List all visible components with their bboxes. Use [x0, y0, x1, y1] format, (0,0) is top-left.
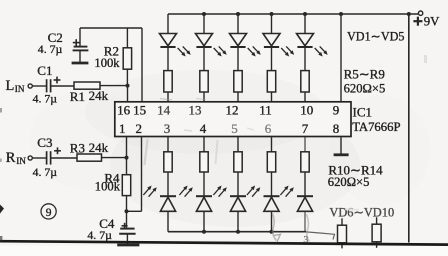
- pin number 16: [117, 103, 131, 118]
- wire rail to VD4: [271, 14, 273, 34]
- ground below C4: [117, 244, 139, 247]
- resistor R5: [164, 71, 172, 92]
- wire IC pin8 to ground: [340, 137, 342, 154]
- value 620Ω×5 bottom: [328, 175, 370, 189]
- wire R2 to node A: [126, 69, 128, 85]
- label R2 100k: [94, 44, 120, 70]
- LED VD1: [160, 34, 177, 48]
- svg-text:3: 3: [304, 236, 309, 246]
- resistor R6: [200, 71, 208, 92]
- value 4.7µ C1: [33, 92, 58, 106]
- wire IC pin to R10: [167, 137, 169, 152]
- wire VD8 to bottom rail: [237, 211, 239, 231]
- wire R5 to IC pin: [167, 92, 169, 102]
- resistor R13: [267, 152, 275, 172]
- node junction rail col 3: [236, 12, 240, 16]
- svg-text:11: 11: [259, 103, 272, 118]
- pin number 9: [333, 103, 340, 118]
- label TA7666P: [352, 120, 400, 134]
- svg-text:R5∼R9: R5∼R9: [344, 67, 385, 82]
- node junction bottom rail 4: [270, 230, 274, 234]
- LED VD10: [297, 196, 313, 211]
- value 620Ω×5 top: [344, 82, 386, 96]
- light arrows VD2: [214, 46, 227, 56]
- light arrows VD7: [179, 186, 192, 197]
- wire node A to IC pin16: [127, 86, 129, 102]
- wire top +9V rail: [168, 13, 418, 15]
- node junction bottom rail 2: [202, 230, 206, 234]
- svg-text:100k: 100k: [94, 56, 120, 70]
- light arrows VD6: [143, 186, 156, 197]
- wire node C to pin2 riser: [127, 210, 142, 212]
- light arrows VD3: [248, 46, 261, 56]
- pin number 13: [189, 103, 202, 118]
- terminal +9V: [418, 11, 422, 15]
- svg-text:2: 2: [136, 121, 143, 136]
- svg-text:16: 16: [117, 103, 131, 118]
- svg-text:10: 10: [300, 103, 313, 118]
- wire bottom rail faded extension: [306, 232, 335, 240]
- svg-text:24k: 24k: [89, 140, 109, 155]
- label R3 24k: [70, 140, 109, 156]
- light arrows VD1: [178, 46, 191, 56]
- label C1: [37, 63, 52, 78]
- terminal R_IN: [28, 156, 32, 160]
- label IC1: [353, 105, 373, 120]
- svg-text:4. 7µ: 4. 7µ: [87, 228, 112, 242]
- wire R3 to node B: [102, 157, 127, 159]
- LED VD4: [263, 34, 280, 48]
- node junction rail col 5: [303, 12, 307, 16]
- wire rail to VD2: [203, 14, 205, 34]
- resistor R11: [200, 152, 208, 172]
- wire VD4 to R8: [271, 47, 273, 71]
- svg-text:8: 8: [333, 121, 340, 136]
- wire R1 to node A: [100, 85, 128, 87]
- label C4: [99, 216, 115, 231]
- svg-text:4: 4: [200, 121, 207, 136]
- resistor R1: [74, 82, 100, 89]
- label C3: [37, 135, 52, 150]
- svg-text:12: 12: [226, 103, 239, 118]
- wire IC pin to R11: [203, 137, 205, 152]
- polarity + C2: [73, 39, 80, 46]
- svg-text:15: 15: [133, 103, 146, 118]
- node junction rail col 2: [202, 12, 206, 16]
- svg-text:5: 5: [231, 121, 238, 136]
- pin number 15: [133, 103, 146, 118]
- svg-text:4. 7µ: 4. 7µ: [33, 165, 58, 179]
- node junction pin9 rail: [339, 12, 343, 16]
- value 4.7µ C2: [38, 42, 63, 56]
- label VD1~VD5: [347, 30, 405, 44]
- wire to IC pin15: [141, 28, 143, 102]
- resistor R9: [301, 71, 309, 92]
- node junction top rail / right rail: [407, 12, 411, 16]
- wire pin9 to +9V rail: [340, 14, 342, 102]
- value 4.7µ C4: [87, 228, 112, 242]
- wire IC pin1 to node B: [126, 137, 128, 158]
- svg-text:9V: 9V: [424, 14, 440, 28]
- capacitor C1: [47, 79, 51, 92]
- svg-text:4. 7µ: 4. 7µ: [33, 92, 58, 106]
- resistor R8: [267, 71, 275, 92]
- svg-text:R3: R3: [70, 140, 85, 155]
- wire C4 to ground: [126, 234, 128, 244]
- svg-text:IN: IN: [16, 156, 26, 166]
- label VD6~VD10: [329, 205, 394, 219]
- svg-text:620Ω×5: 620Ω×5: [344, 82, 386, 96]
- svg-text:9: 9: [46, 207, 52, 219]
- wire L_IN to C1: [32, 85, 46, 87]
- polarity + C3: [54, 147, 61, 154]
- wire VD5 to R9: [304, 47, 306, 71]
- pin number 2: [136, 121, 143, 136]
- polarity + C1: [54, 77, 61, 84]
- wire VD9 to bottom rail: [271, 211, 273, 231]
- pin number 12: [226, 103, 239, 118]
- wire R13 to VD9: [271, 172, 273, 196]
- svg-text:C1: C1: [37, 63, 52, 78]
- label R10~R14: [328, 163, 383, 178]
- svg-text:IC1: IC1: [353, 105, 373, 120]
- wire R8 to IC pin: [271, 92, 273, 102]
- wire C2 stem: [79, 28, 81, 46]
- LED VD9: [264, 196, 280, 211]
- resistor R10: [164, 152, 172, 172]
- resistor R12: [234, 152, 242, 172]
- svg-text:14: 14: [157, 103, 171, 118]
- svg-text:IN: IN: [15, 84, 25, 94]
- resistor R2: [123, 48, 131, 69]
- wire IC pin2 riser: [141, 137, 143, 212]
- node C junction: [125, 209, 129, 213]
- value 4.7µ C3: [33, 165, 58, 179]
- capacitor C2: [73, 47, 89, 51]
- polarity + C4: [122, 223, 128, 229]
- wire R14 to VD10: [304, 172, 306, 196]
- node junction rail col 4: [270, 12, 274, 16]
- wire bottom rail: [168, 231, 306, 233]
- wire rail to VD5: [304, 14, 306, 34]
- capacitor C3: [47, 151, 51, 164]
- light arrows VD5: [315, 46, 328, 56]
- wire VD1 to R5: [167, 47, 169, 71]
- label +9V: [413, 14, 440, 28]
- wire rail to VD3: [237, 14, 239, 34]
- svg-text:R1: R1: [70, 89, 85, 104]
- LED VD7: [196, 196, 212, 211]
- svg-text:620Ω×5: 620Ω×5: [328, 175, 370, 189]
- resistor R3: [77, 154, 102, 161]
- pin number 11: [259, 103, 272, 118]
- wire IC pin to R12: [237, 137, 239, 152]
- node junction bottom rail 3: [236, 230, 240, 234]
- resistor R7: [234, 71, 242, 92]
- pin number 4: [200, 121, 207, 136]
- ground below C2: [72, 62, 89, 65]
- resistor R14: [301, 152, 309, 172]
- label R IN: [6, 150, 26, 166]
- svg-text:9: 9: [333, 103, 340, 118]
- svg-text:3: 3: [164, 121, 171, 136]
- wire VD7 to bottom rail: [203, 211, 205, 231]
- wire C3 to R3: [51, 157, 77, 159]
- pin number 8: [333, 121, 340, 136]
- label R1 24k: [70, 88, 109, 104]
- wire C2 top rail: [80, 27, 142, 29]
- pin number 5: [231, 121, 238, 136]
- label R5~R9: [344, 67, 385, 82]
- wire R7 to IC pin: [237, 92, 239, 102]
- pin number 14: [157, 103, 171, 118]
- pin number 1: [119, 121, 126, 136]
- wire C1 to R1: [51, 85, 74, 87]
- op-amp/IC U1 TA7666P body: [115, 102, 351, 137]
- light arrows VD8: [213, 186, 226, 197]
- LED VD5: [297, 34, 314, 48]
- wire IC pin to R13: [271, 137, 273, 152]
- wire node B to R4: [126, 158, 128, 175]
- svg-text:TA7666P: TA7666P: [352, 120, 400, 134]
- LED VD3: [230, 34, 247, 48]
- svg-text:7: 7: [302, 121, 309, 136]
- wire node C to C4: [126, 211, 128, 227]
- figure number 9: [41, 204, 56, 219]
- wire VD10 to bottom rail: [304, 211, 306, 231]
- terminal L_IN: [28, 84, 32, 88]
- wire R11 to VD7: [203, 172, 205, 196]
- wire R6 to IC pin: [203, 92, 205, 102]
- wire rail to VD1: [167, 14, 169, 34]
- capacitor C4: [119, 229, 135, 234]
- pin number 7: [302, 121, 309, 136]
- resistor partial bottom-right 1: [338, 218, 347, 248]
- wire R10 to VD6: [167, 172, 169, 196]
- light arrows VD10: [280, 186, 293, 197]
- wire VD6 to bottom rail: [167, 211, 169, 231]
- svg-text:VD1∼VD5: VD1∼VD5: [347, 30, 405, 44]
- svg-text:100k: 100k: [95, 179, 121, 193]
- svg-text:VD6∼VD10: VD6∼VD10: [329, 205, 394, 219]
- wire right rail: [408, 14, 410, 243]
- resistor partial bottom-right 2: [372, 217, 381, 248]
- wire R4 to node C: [126, 196, 128, 212]
- node A junction: [126, 84, 130, 88]
- resistor R4: [122, 175, 130, 196]
- node B junction: [125, 156, 129, 160]
- pin number 6: [265, 121, 272, 136]
- label R4 100k: [95, 171, 121, 194]
- light arrows VD9: [247, 186, 260, 197]
- svg-text:6: 6: [265, 121, 272, 136]
- wire VD3 to R7: [237, 47, 239, 71]
- wire R2 top to C2 wire: [126, 28, 128, 48]
- pin number 10: [300, 103, 313, 118]
- svg-text:24k: 24k: [89, 88, 109, 103]
- light arrows VD4: [281, 46, 294, 56]
- wire R12 to VD8: [237, 172, 239, 196]
- svg-text:L: L: [6, 78, 15, 94]
- LED VD8: [230, 196, 246, 211]
- border crop line: [0, 241, 448, 244]
- pin number 3: [164, 121, 171, 136]
- ground pin 8: [334, 153, 349, 156]
- wire R9 to IC pin: [304, 92, 306, 102]
- LED VD2: [196, 34, 213, 48]
- LED VD6: [160, 196, 176, 211]
- svg-text:R: R: [6, 150, 16, 166]
- label L IN: [6, 78, 25, 94]
- svg-text:C3: C3: [37, 135, 52, 150]
- wire VD2 to R6: [203, 47, 205, 71]
- wire IC pin to R14: [304, 137, 306, 152]
- wire C2 to ground: [79, 50, 81, 62]
- label C2: [48, 30, 63, 45]
- svg-text:1: 1: [119, 121, 126, 136]
- svg-text:13: 13: [189, 103, 202, 118]
- svg-text:4. 7µ: 4. 7µ: [38, 42, 63, 56]
- wire R_IN to C3: [32, 157, 46, 159]
